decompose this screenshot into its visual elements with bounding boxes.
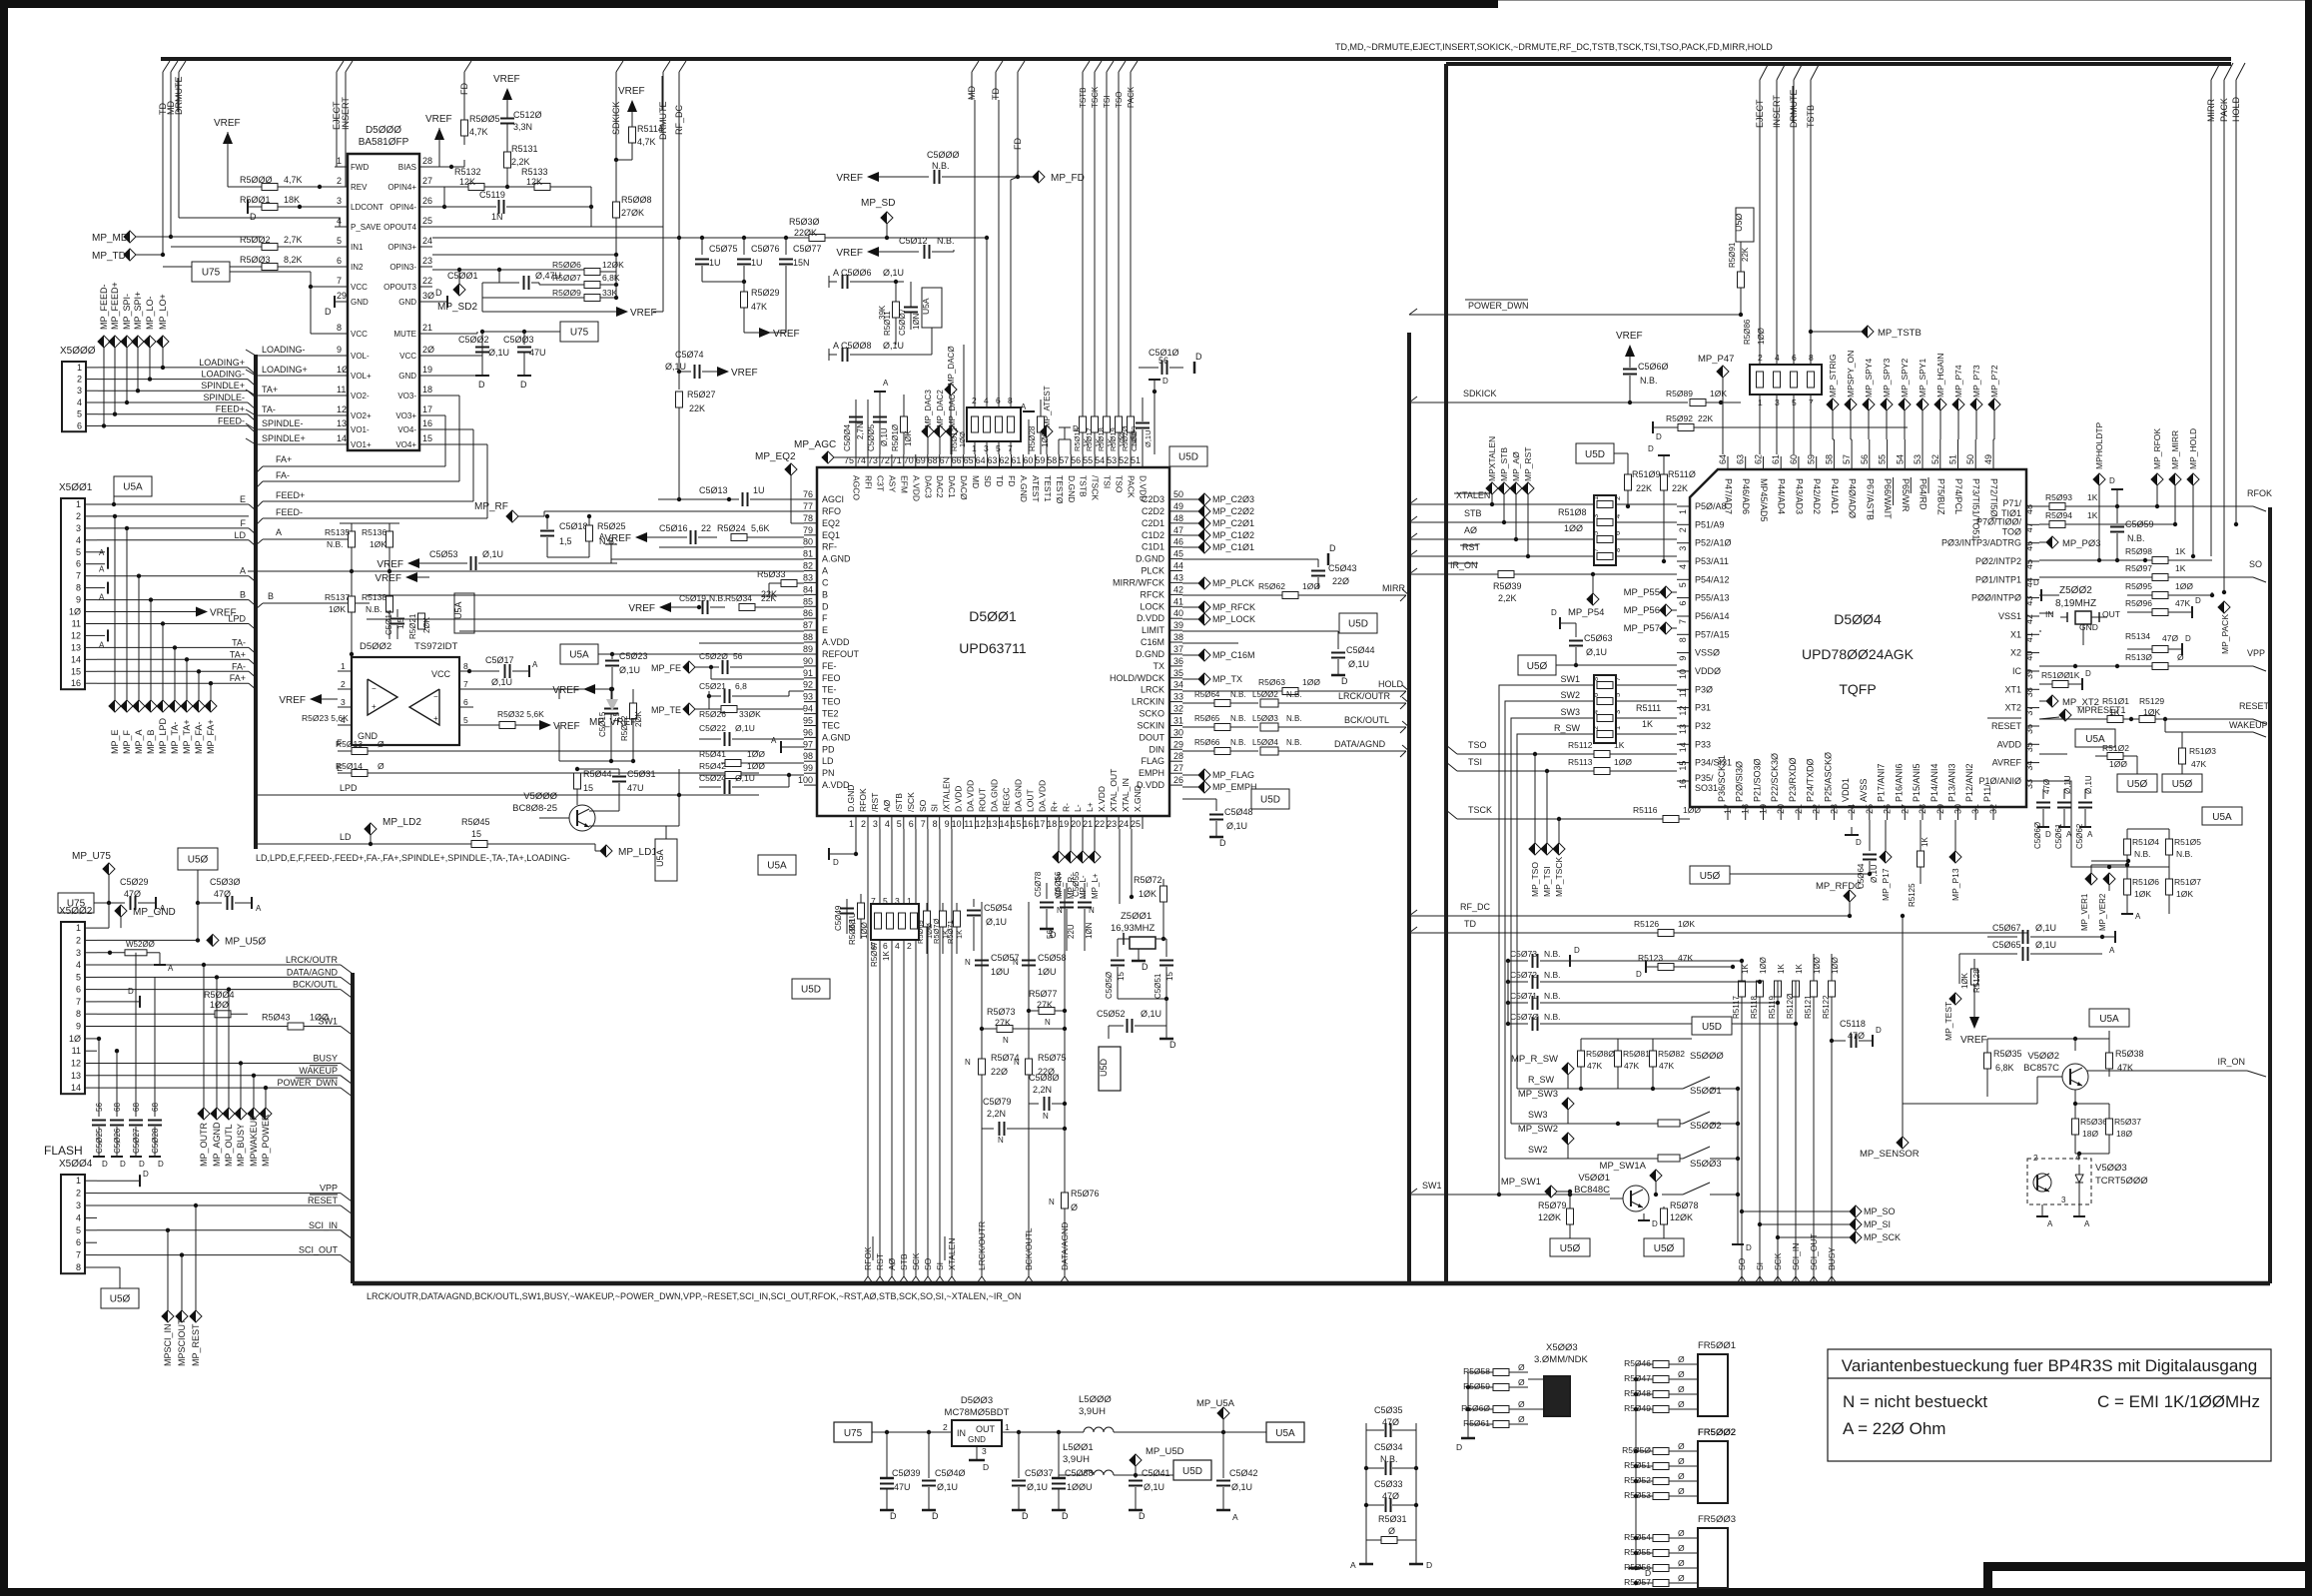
svg-text:2,7K: 2,7K xyxy=(284,235,303,245)
D5001 pin 44 PLCK xyxy=(1169,570,1182,572)
svg-text:37: 37 xyxy=(2024,706,2034,716)
svg-text:22K: 22K xyxy=(689,403,705,413)
svg-text:57: 57 xyxy=(1842,454,1852,464)
svg-text:MPSPY_ON: MPSPY_ON xyxy=(1846,351,1856,398)
wire pin24-area to MP_SD xyxy=(829,237,987,239)
wire X5004 SCI_IN xyxy=(97,1229,341,1231)
resistor R5136 10K xyxy=(386,531,393,547)
D5001 pin 10 D.VDD xyxy=(963,816,965,829)
svg-text:PØ2/INTP2: PØ2/INTP2 xyxy=(1975,556,2021,566)
D5001 pin 79 EQ1 xyxy=(804,534,817,536)
svg-text:21: 21 xyxy=(422,323,432,333)
VREF arrow near pin1 xyxy=(223,132,233,144)
svg-text:1ØK: 1ØK xyxy=(1710,389,1727,399)
svg-text:D: D xyxy=(932,1511,939,1521)
testpoint MP_DAC0 xyxy=(945,384,957,396)
svg-text:22K: 22K xyxy=(761,593,776,603)
svg-text:Ø: Ø xyxy=(1518,1399,1525,1409)
svg-text:R5131: R5131 xyxy=(511,144,538,154)
svg-text:N.B.: N.B. xyxy=(2176,849,2193,859)
svg-text:MP_P56: MP_P56 xyxy=(1624,605,1660,616)
wire X5002 LRCK/OUTR xyxy=(97,964,341,966)
svg-text:TS972IDT: TS972IDT xyxy=(414,641,457,652)
D5001 pin 24 XTAL_IN xyxy=(1130,816,1132,829)
svg-text:60: 60 xyxy=(1789,454,1799,464)
bus entry MIRR (right) xyxy=(2211,63,2220,80)
svg-text:99: 99 xyxy=(803,763,813,773)
svg-text:47K: 47K xyxy=(2191,759,2206,769)
testpoints MP_SO MP_SI MP_SCK xyxy=(1742,1210,1850,1212)
svg-text:Ø: Ø xyxy=(1678,1486,1685,1496)
svg-text:C2D1: C2D1 xyxy=(1142,518,1164,528)
svg-text:MPXTALEN: MPXTALEN xyxy=(1487,436,1497,481)
svg-text:R5133: R5133 xyxy=(521,167,548,177)
svg-text:GND: GND xyxy=(398,298,416,307)
net bus (top horizontal): TD,MD,~DRMUTE,EJECT,INSERT,SOKICK,~DRMUTE,RF_DC,TSTB,TSCK,TSI,TSO,PACK,FD,MIRR,HOLD xyxy=(161,57,2231,61)
wires resistor ladder xyxy=(351,523,353,531)
svg-text:Ø,1U: Ø,1U xyxy=(1870,864,1879,883)
testpoint MP_SD xyxy=(881,212,893,224)
caps C5069 C5061 C5062 xyxy=(2042,789,2044,799)
op-amp driver U D5000 BA5810FP xyxy=(348,154,419,450)
svg-text:12: 12 xyxy=(71,630,81,640)
capacitor C5052 0,1U xyxy=(1109,1025,1124,1027)
svg-text:D: D xyxy=(1219,838,1226,848)
svg-text:R5121: R5121 xyxy=(1804,995,1813,1019)
D5001 pin 100 A.VDD xyxy=(804,784,817,786)
svg-text:8: 8 xyxy=(1809,353,1814,363)
svg-text:3: 3 xyxy=(1678,546,1688,551)
D5001 pin 73 C3T xyxy=(879,454,881,467)
ground D V5001 xyxy=(1643,1213,1645,1220)
svg-text:MP_HGAIN: MP_HGAIN xyxy=(1935,354,1945,398)
svg-text:55: 55 xyxy=(1083,455,1093,465)
svg-text:2: 2 xyxy=(76,511,81,521)
svg-text:6: 6 xyxy=(76,985,81,995)
svg-text:1: 1 xyxy=(1591,496,1600,500)
svg-text:P13/ANI3: P13/ANI3 xyxy=(1947,763,1957,802)
svg-text:/SCK: /SCK xyxy=(906,792,916,812)
D5004 pin 57 P4Ø/ADØ xyxy=(1851,456,1853,469)
svg-text:DA.VDD: DA.VDD xyxy=(1037,780,1047,812)
svg-text:MP_LD2: MP_LD2 xyxy=(383,817,421,828)
svg-text:R5Ø3Ø: R5Ø3Ø xyxy=(789,217,820,227)
svg-text:MP_AØ: MP_AØ xyxy=(1511,451,1521,481)
svg-text:R5Ø69: R5Ø69 xyxy=(916,920,925,944)
D5004 pin 53 P64/RD xyxy=(1922,456,1924,469)
testpoint MP_PACK xyxy=(2218,601,2230,613)
svg-text:AVDD: AVDD xyxy=(1997,739,2022,749)
svg-text:MP_LOCK: MP_LOCK xyxy=(1212,614,1255,624)
bus right-side wires FA-/FEED+/FEED- xyxy=(256,481,263,488)
D5000 pin 22 OPOUT3 xyxy=(419,286,432,288)
svg-text:P21/SO3Ø: P21/SO3Ø xyxy=(1753,758,1763,802)
svg-text:C5Ø72: C5Ø72 xyxy=(1510,970,1537,980)
svg-text:R5Ø89: R5Ø89 xyxy=(1666,389,1693,399)
capacitor C5030 470 xyxy=(197,870,199,903)
svg-text:R5Ø46: R5Ø46 xyxy=(1624,1358,1651,1368)
svg-text:1K: 1K xyxy=(1777,964,1786,974)
resistor R5133 12K xyxy=(507,186,534,188)
svg-text:R5ØØ2: R5ØØ2 xyxy=(240,235,271,245)
svg-text:6: 6 xyxy=(883,941,888,951)
border frame: left bar xyxy=(0,0,8,1596)
svg-text:59: 59 xyxy=(1807,454,1817,464)
svg-text:R5126: R5126 xyxy=(1634,919,1659,929)
svg-text:8: 8 xyxy=(933,819,938,829)
wire INSERT to pin2 xyxy=(346,186,348,188)
svg-text:3: 3 xyxy=(337,196,342,206)
bus entry SDKICK xyxy=(616,61,623,72)
svg-text:MP_VREF: MP_VREF xyxy=(589,717,636,728)
svg-text:1ØØ: 1ØØ xyxy=(1302,581,1320,591)
svg-text:MP45/AD5: MP45/AD5 xyxy=(1759,478,1769,522)
svg-text:17: 17 xyxy=(1723,804,1733,814)
D5004 pin 42 VSS1 xyxy=(2026,615,2039,617)
svg-text:C5Ø14: C5Ø14 xyxy=(385,609,393,635)
D5004 pin 37 XT2 xyxy=(2026,707,2039,709)
svg-text:MP_P47: MP_P47 xyxy=(1698,354,1734,365)
testpoint MPRESET1 xyxy=(2059,709,2071,721)
svg-text:47Ø: 47Ø xyxy=(124,889,141,899)
capacitor C5120 3,3N xyxy=(506,100,508,118)
svg-text:MP_TSO: MP_TSO xyxy=(1530,862,1540,897)
svg-text:11: 11 xyxy=(964,819,973,829)
svg-text:15: 15 xyxy=(1165,972,1174,981)
svg-text:7: 7 xyxy=(76,571,81,581)
svg-text:4: 4 xyxy=(1613,514,1622,518)
capacitor C5009 0,1U xyxy=(1142,429,1144,454)
svg-text:MP_TD: MP_TD xyxy=(92,251,126,262)
svg-text:56: 56 xyxy=(733,651,743,661)
svg-text:STB: STB xyxy=(899,1253,909,1270)
svg-text:R5Ø93: R5Ø93 xyxy=(2045,492,2072,502)
label box U50 xyxy=(178,848,218,870)
svg-text:D: D xyxy=(1856,838,1862,847)
svg-text:P33: P33 xyxy=(1695,739,1711,749)
svg-text:R5Ø28: R5Ø28 xyxy=(1028,425,1037,451)
resistor R5002 2,7K xyxy=(171,246,262,248)
svg-text:1ØØ: 1ØØ xyxy=(310,1013,329,1023)
svg-text:1: 1 xyxy=(76,923,81,933)
svg-text:23: 23 xyxy=(1829,804,1839,814)
svg-text:VCC: VCC xyxy=(351,330,368,339)
svg-text:MP_R+: MP_R+ xyxy=(1055,872,1064,899)
svg-text:R5119: R5119 xyxy=(1768,995,1777,1019)
svg-text:F: F xyxy=(241,518,247,528)
svg-text:Ø,1U: Ø,1U xyxy=(880,427,889,446)
svg-text:U5A: U5A xyxy=(921,298,931,315)
svg-text:51: 51 xyxy=(1948,454,1958,464)
svg-text:VPP: VPP xyxy=(320,1184,338,1194)
D5001 pin 60 ATEST xyxy=(1034,454,1036,467)
svg-text:D.GND: D.GND xyxy=(846,785,856,812)
svg-text:MP_VER2: MP_VER2 xyxy=(2098,893,2107,931)
svg-text:N.B.: N.B. xyxy=(1230,714,1246,723)
svg-text:1: 1 xyxy=(849,819,854,829)
wire R_SW route xyxy=(1517,734,1594,1089)
testpoint MP_RF xyxy=(506,510,518,522)
resistor R5114 4,7K xyxy=(627,100,637,112)
svg-text:1: 1 xyxy=(337,156,342,166)
svg-text:2: 2 xyxy=(1758,353,1763,363)
D5001 pin 98 LD xyxy=(804,760,817,762)
D5004 pin 38 XT1 xyxy=(2026,688,2039,690)
D5000 pin 1Ø VOL+ xyxy=(335,375,348,377)
svg-text:AØ: AØ xyxy=(882,799,892,812)
wire U75 to pin1 xyxy=(97,927,109,929)
svg-text:MP_E: MP_E xyxy=(110,729,120,754)
svg-text:1: 1 xyxy=(76,1176,81,1186)
svg-text:C5Ø71: C5Ø71 xyxy=(1510,991,1537,1001)
svg-text:P64/RD: P64/RD xyxy=(1919,478,1928,510)
svg-text:13: 13 xyxy=(71,642,81,652)
svg-text:Ø,1U: Ø,1U xyxy=(735,773,755,783)
svg-text:R51Ø4: R51Ø4 xyxy=(2132,837,2159,847)
bus entry TSCK xyxy=(1095,61,1102,72)
svg-text:47K: 47K xyxy=(1624,1061,1639,1071)
svg-text:VREF: VREF xyxy=(279,695,306,706)
svg-text:MP_TSTB: MP_TSTB xyxy=(1878,328,1922,339)
svg-text:SPINDLE+: SPINDLE+ xyxy=(262,433,306,443)
wire X5002 POWER_DWN xyxy=(97,1087,341,1089)
resistor R5079 120K xyxy=(1567,1208,1574,1224)
svg-text:R+: R+ xyxy=(1049,801,1059,812)
svg-text:5: 5 xyxy=(76,1225,81,1235)
D5001 pin 93 TEO xyxy=(804,701,817,703)
resistors R5058..R5061 + X5003 xyxy=(1468,1371,1493,1373)
testpoint MP_TEST xyxy=(1949,993,1961,1005)
capacitor C5080 2,2N xyxy=(1029,1103,1039,1105)
svg-text:C5Ø67: C5Ø67 xyxy=(1992,923,2021,933)
svg-text:C5Ø12: C5Ø12 xyxy=(899,236,928,246)
svg-text:MP_SPY1: MP_SPY1 xyxy=(1918,359,1927,398)
svg-text:LOADING+: LOADING+ xyxy=(262,365,308,375)
D5004 pin 59 P42/AD2 xyxy=(1816,456,1818,469)
label box U75 xyxy=(192,262,230,282)
svg-text:DRMUTE: DRMUTE xyxy=(1789,90,1799,129)
svg-text:56: 56 xyxy=(1158,356,1168,366)
svg-text:4: 4 xyxy=(1678,564,1688,569)
svg-text:MUTE: MUTE xyxy=(393,330,416,339)
svg-text:33K: 33K xyxy=(602,288,617,298)
wire SPINDLE+ to D5000 xyxy=(256,443,335,445)
svg-text:Ø: Ø xyxy=(1518,1377,1525,1387)
svg-text:TA-: TA- xyxy=(232,637,246,647)
wires SCI to testpoints xyxy=(167,1230,169,1310)
svg-text:MIRR: MIRR xyxy=(2206,99,2216,122)
svg-text:R5Ø8Ø: R5Ø8Ø xyxy=(1586,1049,1615,1059)
svg-text:8: 8 xyxy=(76,1009,81,1019)
svg-text:6,8: 6,8 xyxy=(735,681,747,691)
D5001 pin 1 D.GND xyxy=(855,816,857,829)
svg-text:R5ØØ6: R5ØØ6 xyxy=(552,260,581,270)
wire pin84 B xyxy=(367,594,804,596)
svg-text:82: 82 xyxy=(803,561,813,571)
svg-text:LD,LPD,E,F,FEED-,FEED+,FA-,FA+: LD,LPD,E,F,FEED-,FEED+,FA-,FA+,SPINDLE+,… xyxy=(256,853,570,863)
R5095 100 xyxy=(2127,594,2152,596)
svg-text:MP_FEED+: MP_FEED+ xyxy=(110,282,120,330)
D5001 pin 81 A.GND xyxy=(804,558,817,560)
svg-text:MP_P72: MP_P72 xyxy=(1989,365,1999,398)
svg-text:/RST: /RST xyxy=(870,793,880,812)
svg-text:R5Ø18: R5Ø18 xyxy=(1097,427,1106,451)
wire RST xyxy=(1409,555,1677,557)
D5001 pin 47 C1D2 xyxy=(1169,534,1182,536)
svg-text:A.GND: A.GND xyxy=(822,554,851,564)
resistors R5106 R5107 10K xyxy=(2124,879,2131,895)
svg-text:Ø,1U: Ø,1U xyxy=(1144,429,1153,447)
svg-text:Ø,1U: Ø,1U xyxy=(883,268,904,278)
svg-text:MD: MD xyxy=(967,86,977,100)
capacitor C5003 47U xyxy=(523,332,525,345)
VREF right arrow xyxy=(539,720,551,730)
svg-text:N.B.: N.B. xyxy=(1286,690,1302,699)
D5004 pin 31 P12/ANI2 xyxy=(1974,807,1976,820)
svg-text:N: N xyxy=(1003,1036,1009,1045)
svg-text:TD: TD xyxy=(1464,919,1476,929)
capacitor C5053 0,1U xyxy=(407,558,419,568)
svg-text:FE-: FE- xyxy=(822,661,837,671)
svg-text:ATEST: ATEST xyxy=(1031,475,1041,502)
svg-text:R5Ø72: R5Ø72 xyxy=(1134,875,1162,885)
svg-text:12: 12 xyxy=(976,819,986,829)
resistor R5006 120K xyxy=(497,268,501,272)
label box U5A bottom xyxy=(758,855,796,875)
svg-text:MP_MIRR: MP_MIRR xyxy=(2170,430,2180,469)
svg-text:−: − xyxy=(372,684,377,693)
svg-text:47U: 47U xyxy=(627,783,644,793)
svg-text:X2: X2 xyxy=(2010,648,2021,658)
svg-text:MP_SPI+: MP_SPI+ xyxy=(133,292,143,330)
wire X5004 SCI_OUT xyxy=(97,1254,341,1256)
net slant entries into bus x1411 xyxy=(1402,589,1409,595)
testpoint MP_P13 xyxy=(1949,851,1961,863)
svg-text:U5D: U5D xyxy=(1585,449,1605,460)
svg-text:DAC3: DAC3 xyxy=(923,475,933,498)
svg-text:XT2: XT2 xyxy=(2004,703,2021,713)
svg-text:AVSS: AVSS xyxy=(1859,779,1869,802)
svg-text:22: 22 xyxy=(701,523,711,533)
svg-text:D: D xyxy=(1162,377,1168,386)
svg-text:7: 7 xyxy=(1678,619,1688,624)
D5001 pin 50 C2D3 xyxy=(1169,498,1182,500)
svg-text:51: 51 xyxy=(1131,455,1141,465)
svg-text:R51Ø6: R51Ø6 xyxy=(2132,877,2159,887)
svg-text:R5ØØ9: R5ØØ9 xyxy=(552,288,581,298)
svg-text:TCRT5ØØØ: TCRT5ØØØ xyxy=(2095,1176,2148,1187)
svg-text:68: 68 xyxy=(151,1103,160,1112)
svg-text:4: 4 xyxy=(885,819,890,829)
svg-text:D: D xyxy=(1050,930,1057,940)
ground D switches xyxy=(1732,1243,1744,1245)
svg-text:C5Ø8Ø: C5Ø8Ø xyxy=(1029,1073,1060,1083)
resistor R5038 47K xyxy=(2106,1053,2113,1069)
svg-text:A C5ØØ6: A C5ØØ6 xyxy=(833,268,872,278)
svg-text:D: D xyxy=(478,380,485,390)
svg-text:16: 16 xyxy=(422,418,432,428)
wire X5001 pin10 xyxy=(97,611,196,613)
svg-text:1U: 1U xyxy=(753,485,765,495)
svg-text:TA+: TA+ xyxy=(262,385,278,395)
wire SW2 xyxy=(1505,1158,1683,1160)
svg-text:P16/ANI6: P16/ANI6 xyxy=(1894,763,1904,802)
svg-text:BC8Ø8-25: BC8Ø8-25 xyxy=(512,803,557,814)
svg-text:D: D xyxy=(2045,830,2051,839)
svg-text:22: 22 xyxy=(422,276,432,286)
ground D X5002 pin7 xyxy=(97,1001,140,1003)
svg-text:INSERT: INSERT xyxy=(1772,95,1782,128)
svg-text:C5Ø51: C5Ø51 xyxy=(1154,973,1162,999)
svg-text:BA581ØFP: BA581ØFP xyxy=(359,137,409,148)
resistor R5041 100 xyxy=(721,762,725,764)
wire pin80 RF- xyxy=(659,546,804,548)
svg-text:TEC: TEC xyxy=(822,721,841,731)
capacitor C5059 N.B. xyxy=(2116,506,2118,523)
svg-text:54: 54 xyxy=(1095,455,1105,465)
svg-text:A: A xyxy=(883,379,889,388)
svg-text:SCI_OUT: SCI_OUT xyxy=(299,1245,339,1255)
label box U5D xyxy=(1182,630,1338,632)
svg-text:DAC2: DAC2 xyxy=(935,475,945,498)
svg-text:81: 81 xyxy=(803,549,813,559)
D5004 pin 58 P41/AD1 xyxy=(1833,456,1835,469)
main IC D5001 UPD63711 xyxy=(817,467,1169,816)
svg-text:1ØØ: 1ØØ xyxy=(2109,759,2127,769)
svg-text:R51Ø9: R51Ø9 xyxy=(1632,469,1661,479)
wire LRCK + R5064 N.B. + L5002 N.B. xyxy=(1182,702,1214,704)
svg-text:REV: REV xyxy=(351,183,368,192)
svg-text:45: 45 xyxy=(2024,559,2034,569)
bus entry TSO xyxy=(1119,61,1126,72)
resistor column R5117..R5122 xyxy=(1739,981,1746,997)
ground D R5134 xyxy=(2181,643,2183,655)
testpoint MP_FEED+ xyxy=(109,336,121,348)
svg-text:PACK: PACK xyxy=(2219,98,2229,122)
svg-text:DA.GND: DA.GND xyxy=(1013,779,1023,812)
D5004 pin 5 P54/A12 xyxy=(1677,578,1690,580)
svg-text:BUSY: BUSY xyxy=(1827,1247,1837,1270)
svg-text:BC857C: BC857C xyxy=(2023,1063,2059,1074)
testpoint MP_FD xyxy=(1033,171,1045,183)
svg-text:VCC: VCC xyxy=(431,669,451,679)
svg-text:32: 32 xyxy=(1988,804,1998,814)
svg-text:1ØU: 1ØU xyxy=(991,967,1010,977)
svg-text:BIAS: BIAS xyxy=(398,163,416,172)
svg-text:A C5ØØ8: A C5ØØ8 xyxy=(833,341,872,351)
svg-text:FA-: FA- xyxy=(276,470,290,480)
testpoints MP_C203..MP_C101 xyxy=(1182,498,1198,500)
svg-text:3: 3 xyxy=(1613,710,1622,714)
label box U5D low xyxy=(792,979,830,999)
D5000 pin 6 IN2 xyxy=(335,266,348,268)
svg-text:LRCK/OUTR: LRCK/OUTR xyxy=(1338,691,1391,701)
D5004 pin 17 P36/SCK31 xyxy=(1727,807,1729,820)
svg-text:95: 95 xyxy=(803,716,813,726)
svg-text:47U: 47U xyxy=(529,348,546,358)
svg-text:R5Ø7Ø: R5Ø7Ø xyxy=(932,918,941,944)
D5004 pin 12 P31 xyxy=(1677,707,1690,709)
label box U5A right xyxy=(2202,807,2242,825)
testpoint diamond stems xyxy=(2098,485,2100,560)
svg-text:U5A: U5A xyxy=(2212,812,2232,823)
svg-text:MP_STRIG: MP_STRIG xyxy=(1828,355,1838,398)
svg-text:GND: GND xyxy=(2079,622,2098,632)
svg-text:C1D1: C1D1 xyxy=(1142,542,1164,552)
svg-text:8: 8 xyxy=(463,661,468,671)
svg-text:5: 5 xyxy=(897,819,902,829)
svg-text:MP_DACØ: MP_DACØ xyxy=(947,346,956,386)
